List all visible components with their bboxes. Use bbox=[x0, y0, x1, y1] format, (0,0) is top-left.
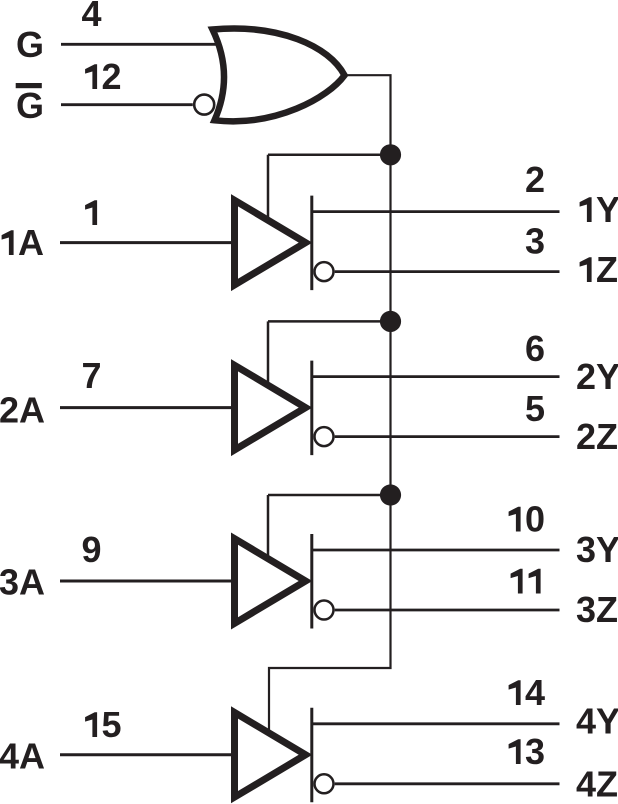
svg-text:6: 6 bbox=[525, 328, 545, 369]
svg-text:3Y: 3Y bbox=[576, 529, 618, 570]
svg-text:2Z: 2Z bbox=[576, 416, 618, 457]
svg-text:2A: 2A bbox=[0, 390, 45, 431]
svg-text:3Z: 3Z bbox=[576, 589, 618, 630]
svg-text:4Y: 4Y bbox=[576, 701, 618, 742]
svg-text:2Y: 2Y bbox=[576, 356, 618, 397]
svg-text:5: 5 bbox=[525, 388, 545, 429]
svg-text:3: 3 bbox=[525, 221, 545, 262]
svg-text:7: 7 bbox=[82, 355, 102, 396]
svg-text:2: 2 bbox=[525, 159, 545, 200]
svg-text:3A: 3A bbox=[0, 562, 45, 603]
svg-text:G: G bbox=[16, 24, 44, 65]
svg-text:4: 4 bbox=[82, 0, 102, 34]
svg-text:9: 9 bbox=[82, 529, 102, 570]
svg-text:4Z: 4Z bbox=[576, 764, 618, 804]
svg-text:4A: 4A bbox=[0, 736, 45, 777]
svg-text:G: G bbox=[16, 85, 44, 126]
